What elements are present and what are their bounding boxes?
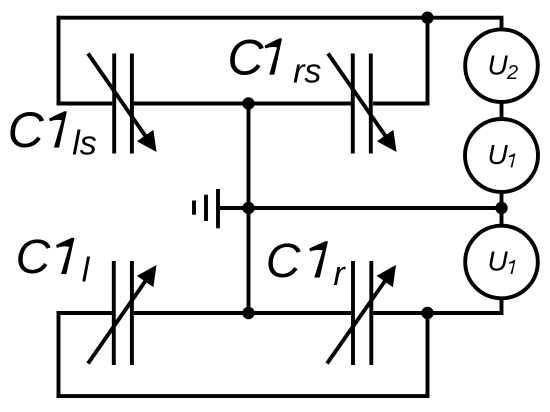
junction bottom caps rail / right branch [421,307,433,319]
svg-text:C: C [266,235,301,288]
junction mid rail / center vertical [242,97,254,109]
svg-text:r: r [333,255,346,293]
svg-text:C: C [8,102,45,158]
wire top rail with drop to U2 [57,18,502,30]
wire center vertical [247,104,251,314]
wire mid rail right segment [373,102,429,106]
capacitor C1r [327,261,396,365]
wire U2 to U1 link [500,102,504,119]
capacitor C1l [88,261,157,365]
wire ground rail [218,206,502,210]
junction ground rail / source column [495,202,507,214]
junction top rail / right branch [421,12,433,24]
svg-text:U: U [488,246,509,277]
svg-text:2: 2 [506,62,518,84]
svg-text:U: U [488,139,509,170]
wire bottom caps rail left segment [57,311,112,315]
wire mid rail center segment [134,102,351,106]
svg-text:C: C [16,231,51,284]
source U2 [465,29,538,102]
label C1ls [8,102,97,163]
source U1 (bottom) [465,226,538,299]
source U1 (middle) [465,119,538,192]
label C1rs [227,29,321,90]
wire right vertical (bottom loop) [426,311,430,398]
wire right vertical (top loop) [426,16,430,106]
svg-text:U: U [488,50,509,81]
junction bottom caps rail / center vertical [242,307,254,319]
wire left vertical (top loop) [57,16,61,106]
capacitor C1ls [88,54,157,154]
label C1l [16,231,91,290]
wire U1 to U1 link [500,192,504,226]
junction ground rail / center vertical [242,202,254,214]
wire mid rail left segment [57,102,113,106]
ground [194,189,218,228]
svg-text:l: l [82,252,91,290]
capacitor C1rs [328,54,397,154]
wire bottom caps rail right segment with rise to U1 [373,298,501,313]
wire left vertical (bottom loop) [57,311,61,398]
label C1r [266,235,347,293]
svg-text:rs: rs [293,52,321,90]
svg-text:C: C [227,29,264,85]
wire bottom caps rail center segment [134,311,351,315]
wire bottom rail [57,394,430,398]
svg-text:ls: ls [72,125,97,163]
